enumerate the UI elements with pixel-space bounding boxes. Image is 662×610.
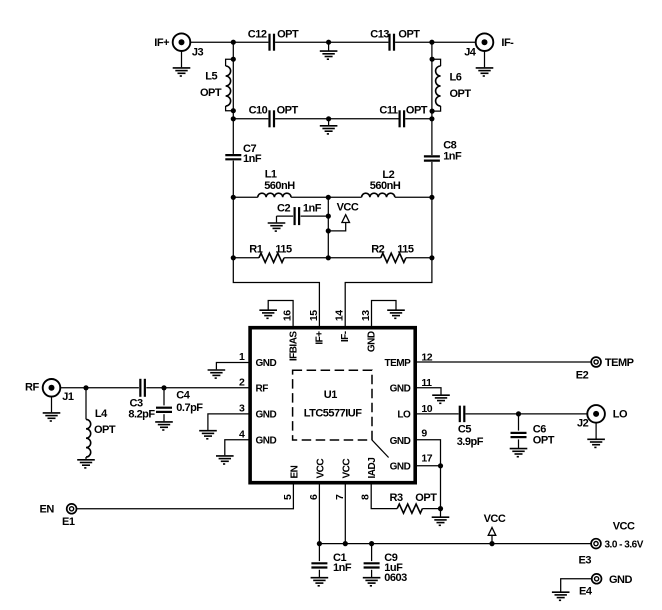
svg-text:5: 5	[282, 494, 294, 500]
svg-text:8: 8	[360, 494, 372, 500]
svg-text:GND: GND	[256, 358, 277, 369]
inductor L2 560nH	[362, 169, 401, 197]
svg-text:IF-: IF-	[501, 37, 514, 49]
svg-text:7: 7	[334, 494, 346, 500]
svg-text:8.2pF: 8.2pF	[128, 408, 155, 420]
capacitor C2 1nF	[277, 203, 329, 226]
svg-text:9: 9	[421, 427, 427, 439]
svg-text:R1: R1	[249, 244, 262, 256]
pin 11 stub and ground	[415, 388, 450, 404]
svg-text:VCC: VCC	[341, 459, 352, 479]
svg-text:1: 1	[239, 351, 245, 363]
svg-text:C4: C4	[176, 389, 190, 401]
connector J3 IF+	[154, 33, 203, 58]
svg-text:L1: L1	[265, 169, 277, 181]
svg-text:1nF: 1nF	[443, 150, 462, 162]
svg-text:OPT: OPT	[415, 492, 437, 504]
svg-text:J4: J4	[464, 47, 477, 59]
svg-text:OPT: OPT	[200, 87, 222, 99]
wire IF+ top rail row1	[190, 41, 268, 43]
svg-text:J1: J1	[62, 391, 74, 403]
svg-text:4: 4	[239, 428, 245, 440]
svg-text:3.9pF: 3.9pF	[457, 436, 484, 448]
svg-text:J2: J2	[577, 418, 589, 430]
svg-text:10: 10	[421, 403, 432, 415]
U1 pin names top	[288, 331, 377, 362]
U1 pin names bottom	[289, 458, 378, 479]
svg-text:GND: GND	[390, 383, 411, 394]
resistor R1 115	[249, 244, 292, 263]
wire center vertical node	[327, 197, 329, 257]
pin 1 stub and ground	[208, 363, 251, 379]
ground at C4	[155, 422, 173, 430]
node junctions row1	[231, 40, 236, 45]
svg-text:C5: C5	[458, 424, 471, 436]
wire row2	[233, 118, 268, 120]
U1 pin numbers top	[282, 310, 372, 321]
U1 pin names left	[256, 358, 277, 446]
connector E4 GND	[579, 574, 633, 598]
capacitor C6 OPT	[511, 414, 555, 448]
wire RF line	[60, 387, 138, 389]
wire row4	[233, 196, 257, 198]
svg-text:OPT: OPT	[398, 28, 420, 40]
svg-text:2: 2	[239, 377, 245, 389]
svg-text:IADJ: IADJ	[367, 458, 378, 479]
svg-text:6: 6	[308, 494, 320, 500]
wire TEMP line pin 12	[415, 361, 591, 363]
wire pin 9 to pin 17 net	[415, 440, 440, 509]
svg-text:C12: C12	[248, 28, 267, 40]
wire pin 17 stub	[415, 465, 440, 467]
ground at R3	[432, 509, 450, 526]
capacitor C8	[424, 139, 462, 162]
svg-text:VCC: VCC	[613, 521, 635, 533]
ground at C1	[311, 578, 329, 586]
svg-text:560nH: 560nH	[370, 180, 401, 192]
ground tap row2 center	[320, 116, 338, 134]
connector J4 IF-	[464, 33, 514, 58]
svg-text:TEMP: TEMP	[605, 357, 634, 369]
resistor R2 115	[371, 244, 414, 263]
svg-text:R2: R2	[371, 244, 384, 256]
wire VCC rail	[318, 483, 320, 544]
capacitor C9 1uF 0603	[364, 544, 408, 584]
svg-text:OPT: OPT	[94, 424, 116, 436]
svg-text:IF+: IF+	[315, 331, 326, 345]
svg-text:LO: LO	[397, 409, 411, 420]
U1 pin numbers bottom	[282, 494, 372, 500]
svg-text:L6: L6	[450, 72, 462, 84]
capacitor C10	[249, 105, 299, 128]
svg-text:1nF: 1nF	[303, 203, 322, 215]
U1 labels	[304, 389, 363, 420]
inductor L6	[432, 59, 471, 111]
ground at J4	[476, 51, 494, 76]
svg-text:OPT: OPT	[406, 105, 428, 117]
U1 pin numbers right	[421, 352, 432, 465]
svg-text:OPT: OPT	[277, 105, 299, 117]
ground at L4	[77, 460, 95, 468]
svg-text:GND: GND	[366, 331, 377, 352]
svg-text:3: 3	[239, 403, 245, 415]
svg-text:VCC: VCC	[337, 202, 359, 214]
connector J2 LO	[577, 405, 628, 430]
connector E1 EN	[40, 504, 77, 528]
ground at J1	[43, 397, 61, 421]
svg-text:EN: EN	[40, 504, 55, 516]
svg-text:16: 16	[282, 310, 294, 321]
svg-text:VCC: VCC	[315, 459, 326, 479]
svg-text:RF: RF	[256, 383, 269, 394]
wire right IF rail	[431, 42, 433, 155]
svg-text:C10: C10	[249, 105, 268, 117]
svg-text:3.0 - 3.6V: 3.0 - 3.6V	[605, 540, 644, 551]
ground at J2	[587, 423, 605, 448]
wire EN line pin 5	[77, 483, 294, 509]
svg-text:E4: E4	[579, 586, 593, 598]
svg-text:EN: EN	[289, 465, 300, 478]
U1 pin names right	[385, 358, 412, 473]
ground at E4	[552, 579, 592, 601]
svg-text:GND: GND	[256, 435, 277, 446]
pin 4 stub and ground	[216, 440, 250, 464]
svg-text:13: 13	[360, 310, 372, 321]
svg-text:15: 15	[308, 310, 320, 321]
ground at J3	[173, 51, 191, 76]
svg-text:GND: GND	[609, 574, 633, 586]
capacitor C7	[225, 143, 262, 165]
svg-text:14: 14	[334, 310, 346, 321]
U1 exposed pad dashed outline	[293, 370, 372, 440]
capacitor C1 1nF	[311, 544, 351, 578]
svg-text:1nF: 1nF	[333, 562, 352, 574]
pin 16 stub and ground	[259, 301, 293, 328]
svg-text:C2: C2	[277, 203, 290, 215]
svg-text:GND: GND	[390, 461, 411, 472]
resistor R3 OPT	[371, 483, 440, 514]
svg-text:GND: GND	[256, 409, 277, 420]
connector E3 VCC	[579, 521, 644, 567]
svg-text:C11: C11	[379, 105, 397, 117]
wire left IF rail	[232, 42, 234, 154]
svg-text:560nH: 560nH	[264, 180, 295, 192]
svg-text:0603: 0603	[384, 572, 407, 584]
svg-text:IF-: IF-	[340, 331, 351, 342]
svg-text:VCC: VCC	[484, 513, 506, 525]
connector E2 TEMP	[576, 357, 634, 382]
capacitor C11	[379, 105, 427, 128]
svg-text:GND: GND	[390, 436, 411, 447]
svg-text:E2: E2	[576, 370, 589, 382]
svg-text:L4: L4	[95, 408, 108, 420]
ground at C2	[268, 216, 286, 231]
svg-text:115: 115	[397, 244, 414, 256]
inductor L4 OPT	[86, 388, 116, 459]
connector J1 RF input	[25, 379, 74, 403]
svg-text:11: 11	[421, 377, 432, 389]
svg-text:E3: E3	[579, 555, 592, 567]
svg-text:0.7pF: 0.7pF	[176, 402, 203, 414]
svg-text:L5: L5	[205, 71, 217, 83]
svg-text:OPT: OPT	[533, 434, 555, 446]
op-amp U1 LTC5577IUF chip body	[250, 328, 415, 483]
ground at C6	[510, 449, 528, 457]
capacitor C5 3.9pF	[457, 406, 484, 448]
capacitor C4 0.7pF	[156, 388, 203, 422]
wire LO line pin 10	[415, 413, 458, 415]
svg-text:J3: J3	[192, 46, 204, 58]
svg-text:1nF: 1nF	[243, 153, 262, 165]
svg-text:U1: U1	[324, 389, 337, 401]
U1 pin numbers left	[239, 351, 245, 440]
svg-text:E1: E1	[62, 516, 75, 528]
svg-text:LTC5577IUF: LTC5577IUF	[304, 408, 363, 420]
capacitor C13	[370, 28, 420, 50]
svg-text:115: 115	[275, 244, 292, 256]
svg-text:17: 17	[421, 453, 432, 465]
pin 13 stub and ground	[372, 301, 405, 328]
svg-text:OPT: OPT	[450, 88, 472, 100]
svg-text:C13: C13	[370, 28, 389, 40]
VCC arrow at rail	[484, 513, 506, 544]
ground at C9	[363, 578, 381, 586]
svg-text:TEMP: TEMP	[385, 358, 412, 369]
svg-text:LO: LO	[613, 409, 628, 421]
svg-text:IF+: IF+	[154, 37, 169, 49]
svg-text:IFBIAS: IFBIAS	[288, 331, 299, 362]
VCC arrow center	[328, 202, 359, 231]
wire row5	[233, 257, 259, 259]
svg-text:RF: RF	[25, 382, 39, 394]
pin 3 stub and ground	[199, 414, 250, 439]
svg-text:OPT: OPT	[277, 28, 299, 40]
capacitor C3 8.2pF	[128, 379, 155, 421]
inductor L5	[200, 59, 233, 110]
capacitor C12	[248, 28, 299, 50]
inductor L1 560nH	[258, 169, 295, 198]
ground tap row1 center	[320, 40, 338, 60]
svg-text:R3: R3	[390, 492, 403, 504]
